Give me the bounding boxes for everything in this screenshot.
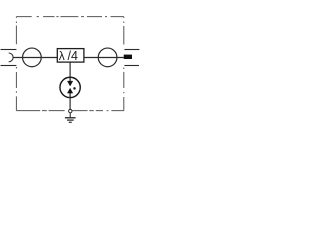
wire: box bottom down to gas discharge tube [69, 62, 71, 77]
earth ground bar 2 [67, 119, 74, 121]
left coax shield line bottom [1, 65, 17, 67]
GDT gas-filled indicator dot [73, 87, 76, 90]
node terminal circle on enclosure [69, 109, 72, 112]
right coax shield line top [124, 49, 139, 51]
earth ground bar 1 [65, 117, 76, 119]
enclosure border right (dash-dot) [123, 17, 125, 111]
right plug pin (filled) [124, 55, 132, 59]
wire: arc to lambda/4 box (through left circle) [13, 57, 57, 59]
enclosure border left (dash-dot) [15, 17, 17, 111]
svg-text:λ: λ [59, 49, 65, 63]
enclosure border top (dash-dot) [16, 16, 123, 18]
GDT lower electrode (up triangle) [67, 88, 72, 93]
lambda/4 box U1 [57, 49, 84, 63]
wire: box to right plug (through right circle) [84, 57, 124, 59]
GDT upper electrode (down triangle) [67, 81, 72, 86]
gas discharge tube F1 circle [60, 77, 80, 97]
enclosure border bottom (dash-dot) [16, 110, 123, 112]
wire: GDT to enclosure node [69, 97, 71, 109]
GDT lower electrode lead [69, 93, 71, 97]
left connector socket arc [9, 53, 13, 62]
earth ground bar 3 [69, 121, 72, 123]
left coax shield line top [1, 49, 17, 51]
right circle (bushing) [98, 48, 117, 67]
svg-text:/4: /4 [68, 49, 78, 63]
right coax shield line bottom [124, 65, 139, 67]
left circle (bushing) [23, 48, 42, 67]
wire: node to earth [69, 113, 71, 117]
GDT upper electrode lead [69, 77, 71, 81]
